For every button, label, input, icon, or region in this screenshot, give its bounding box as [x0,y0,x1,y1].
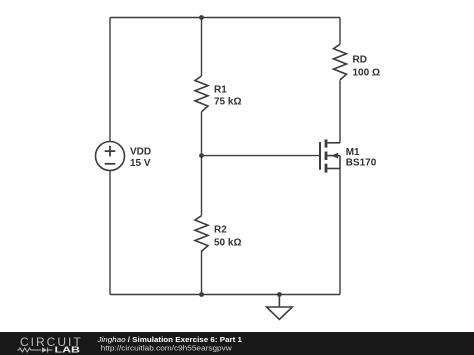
wire source M1 to bottom rail [339,169,341,295]
svg-text:15 V: 15 V [130,158,151,169]
resistor R1 [195,76,208,112]
transistor M1 NMOS [320,139,340,172]
label R1 75 kΩ [214,85,241,108]
label R2 50 kΩ [214,225,241,249]
svg-text:VDD: VDD [130,147,151,158]
wire gate node to M1 [202,155,320,157]
wire middle rail between R1 and R2 [201,112,203,216]
voltage source V1 VDD 15V [96,142,125,171]
wire drain RD to M1 [339,80,341,143]
footer bar [0,332,474,355]
svg-text:RD: RD [353,55,367,66]
wire top rail [110,17,340,19]
label RD 100 Ω [353,55,380,79]
wire left rail lower [109,171,111,295]
svg-text:50 kΩ: 50 kΩ [214,238,241,249]
wire right rail top segment [339,18,341,45]
resistor R2 [195,216,208,252]
wire left rail upper [109,18,111,142]
wire middle rail bottom segment [201,250,203,294]
resistor RD [334,44,347,80]
junction node top [199,15,204,20]
svg-text:75 kΩ: 75 kΩ [214,97,241,108]
svg-text:R1: R1 [214,85,227,96]
svg-text:LAB: LAB [55,345,81,355]
junction node gate [199,153,204,158]
junction node bottom middle [199,292,204,297]
CircuitLab logo resistor squiggle and diode [18,347,53,352]
ground [267,295,293,320]
label M1 BS170 [346,147,377,169]
svg-text:BS170: BS170 [346,158,377,169]
junction node ground [277,292,282,297]
svg-text:100 Ω: 100 Ω [353,68,380,79]
wire middle rail top segment [201,18,203,77]
svg-text:M1: M1 [346,147,360,158]
svg-text:http://circuitlab.com/c9h55ear: http://circuitlab.com/c9h55earsgpvw [101,344,233,353]
svg-text:R2: R2 [214,225,227,236]
label VDD 15 V [130,147,151,169]
wire bottom rail [110,294,340,296]
